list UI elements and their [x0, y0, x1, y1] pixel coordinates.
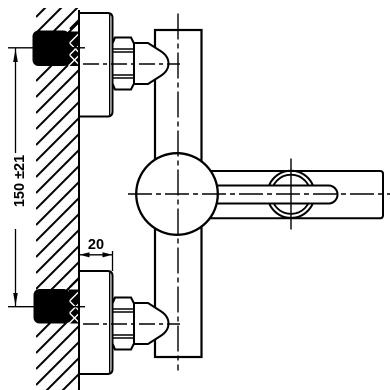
valve dome circle: [136, 153, 218, 235]
escutcheon plate bottom: [79, 271, 113, 374]
S-union block top (black): [33, 31, 70, 67]
union nut bottom: [113, 298, 135, 350]
dimension line 150 vertical: [15, 48, 17, 306]
cap outer circle: [267, 171, 314, 218]
extension line bottom (through wall): [8, 306, 85, 308]
escutcheon plate top: [79, 13, 113, 117]
S-union block bottom (black): [34, 289, 70, 324]
cone fitting bottom: [134, 303, 169, 344]
union nut top: [113, 38, 135, 90]
centerline pipe top: [83, 63, 180, 65]
centerline cap vertical: [290, 159, 292, 230]
arrowhead right: [103, 252, 113, 257]
svg-text:20: 20: [88, 237, 104, 253]
extension stub bottom over plate: [69, 306, 85, 308]
arrowhead left: [80, 252, 90, 257]
wall face line: [78, 10, 80, 390]
extension stub top over plate: [69, 47, 85, 49]
hole break-out region bottom: [69, 278, 80, 324]
plate bottom inner edge line: [109, 273, 111, 373]
centerline pipe bottom: [83, 323, 180, 325]
centerline main horizontal: [128, 193, 390, 195]
extension line 20 right: [112, 251, 114, 271]
dim line 20: [80, 254, 113, 256]
handle housing rect: [205, 171, 383, 218]
svg-text:150 ±21: 150 ±21: [12, 155, 28, 207]
plate top inner edge line: [109, 15, 111, 116]
body column: [155, 30, 202, 357]
cap inner circle: [271, 175, 310, 214]
centerline body vertical: [177, 14, 179, 371]
lever bar: [205, 186, 338, 204]
arrowhead up: [13, 49, 18, 62]
wall hatching: [36, 0, 79, 390]
arrowhead down: [13, 293, 18, 306]
hole break-out region top: [69, 20, 80, 66]
cone fitting top: [134, 43, 169, 84]
extension line top (through wall): [8, 47, 85, 49]
